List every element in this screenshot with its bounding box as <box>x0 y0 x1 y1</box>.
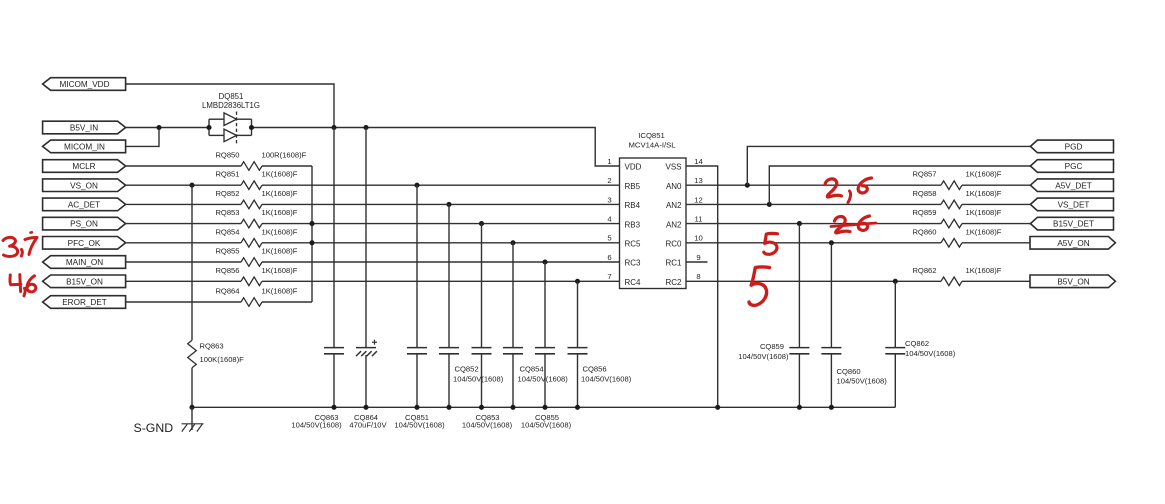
wire AN0 row pin13 <box>686 184 941 186</box>
wire B5V_IN net right segment <box>252 128 620 167</box>
junction rail CQ855 <box>542 405 547 410</box>
flag PGD <box>1030 140 1113 153</box>
wire B15V_DET to flag <box>962 223 1030 225</box>
capacitor CQ855 <box>521 262 572 430</box>
junction rail CQ863 <box>331 405 336 410</box>
resistor RQ850 <box>215 151 306 171</box>
resistor RQ857 <box>912 170 1001 190</box>
svg-text:RQ863: RQ863 <box>200 342 224 351</box>
resistor RQ852 <box>215 189 297 209</box>
svg-text:CQ852: CQ852 <box>455 365 479 374</box>
junction rail CQ853 <box>479 405 484 410</box>
svg-text:CQ859: CQ859 <box>760 342 784 351</box>
svg-text:11: 11 <box>695 215 703 224</box>
junction B5V_IN/MICOM_IN <box>156 125 161 130</box>
flag PS_ON <box>43 217 126 230</box>
svg-text:RB5: RB5 <box>625 182 641 191</box>
wire MICOM_IN riser <box>126 128 159 147</box>
svg-text:MAIN_ON: MAIN_ON <box>66 258 103 267</box>
svg-text:RQ859: RQ859 <box>912 208 936 217</box>
resistor RQ863 <box>188 185 244 407</box>
svg-text:AC_DET: AC_DET <box>68 201 100 210</box>
svg-text:RQ855: RQ855 <box>215 247 239 256</box>
svg-text:3: 3 <box>607 195 611 204</box>
junction rail at RQ863 <box>189 405 194 410</box>
junction diode cathode <box>249 125 254 130</box>
resistor RQ859 <box>912 208 1001 228</box>
svg-text:RC0: RC0 <box>665 240 682 249</box>
junction rail CQ852 <box>446 405 451 410</box>
svg-text:104/50V(1608): 104/50V(1608) <box>518 375 569 384</box>
junction pin13 PGD tap <box>745 183 750 188</box>
capacitor CQ860 <box>821 243 887 407</box>
capacitor CQ856 <box>568 281 632 407</box>
svg-text:AN0: AN0 <box>666 182 682 191</box>
junction RB5 at CQ851 <box>414 183 419 188</box>
svg-text:RB3: RB3 <box>625 220 641 229</box>
resistor RQ854 <box>215 227 297 247</box>
svg-text:PFC_OK: PFC_OK <box>68 239 101 248</box>
wire B5V_ON to flag <box>962 280 1030 282</box>
resistor RQ856 <box>215 266 297 286</box>
flag A5V_DET <box>1030 179 1113 192</box>
svg-text:A5V_ON: A5V_ON <box>1057 239 1089 248</box>
junction RC3 at CQ855 <box>542 259 547 264</box>
flag A5V_ON <box>1030 237 1115 250</box>
svg-text:S-GND: S-GND <box>134 421 174 435</box>
resistor RQ862 <box>912 266 1001 286</box>
svg-text:1K(1608)F: 1K(1608)F <box>966 189 1002 198</box>
wire A5V_ON to flag <box>962 242 1030 244</box>
svg-text:RQ850: RQ850 <box>215 151 239 160</box>
svg-text:104/50V(1608): 104/50V(1608) <box>291 421 342 430</box>
svg-text:CQ860: CQ860 <box>837 367 861 376</box>
svg-text:1K(1608)F: 1K(1608)F <box>966 208 1002 217</box>
resistor RQ858 <box>912 189 1001 209</box>
svg-text:B5V_ON: B5V_ON <box>1057 277 1089 286</box>
junction diode anode <box>206 125 211 130</box>
svg-text:MICOM_VDD: MICOM_VDD <box>59 80 109 89</box>
svg-text:RQ862: RQ862 <box>912 266 936 275</box>
svg-text:104/50V(1608): 104/50V(1608) <box>905 349 956 358</box>
annotation red 5 upper <box>764 233 778 254</box>
svg-text:470uF/10V: 470uF/10V <box>349 421 387 430</box>
svg-text:9: 9 <box>696 253 700 262</box>
svg-text:VS_ON: VS_ON <box>70 181 98 190</box>
junction rail CQ854 <box>510 405 515 410</box>
svg-text:1K(1608)F: 1K(1608)F <box>262 189 298 198</box>
svg-text:CQ854: CQ854 <box>520 365 544 374</box>
svg-text:B15V_ON: B15V_ON <box>66 277 103 286</box>
junction rail CQ851 <box>414 405 419 410</box>
junction rail VSS <box>715 405 720 410</box>
svg-text:PS_ON: PS_ON <box>70 220 98 229</box>
flag AC_DET <box>43 198 126 211</box>
svg-text:RQ856: RQ856 <box>215 266 239 275</box>
capacitor CQ859 <box>738 224 809 408</box>
svg-text:104/50V(1608): 104/50V(1608) <box>837 377 888 386</box>
svg-text:AN2: AN2 <box>666 201 682 210</box>
wire RC0 row pin10 <box>686 242 941 244</box>
svg-text:1K(1608)F: 1K(1608)F <box>262 170 298 179</box>
svg-text:RQ853: RQ853 <box>215 208 239 217</box>
flag B5V_ON <box>1030 275 1115 288</box>
svg-text:PGC: PGC <box>1065 162 1083 171</box>
capacitor CQ853 <box>462 224 513 430</box>
annotation red 2,6 crossed <box>831 216 876 233</box>
svg-text:RC5: RC5 <box>625 240 642 249</box>
capacitor CQ851 <box>394 185 445 430</box>
flag B15V_DET <box>1030 217 1113 230</box>
svg-text:MICOM_IN: MICOM_IN <box>64 143 105 152</box>
junction pin12 PGC tap <box>767 202 772 207</box>
diode DQ851 LMBD2836LT1G <box>202 92 260 146</box>
svg-text:DQ851: DQ851 <box>219 92 244 101</box>
wire RB5 row <box>262 184 620 186</box>
wire PGD <box>747 146 1030 185</box>
resistor RQ860 <box>912 227 1001 247</box>
resistor RQ864 <box>215 287 297 307</box>
svg-text:EROR_DET: EROR_DET <box>62 298 107 307</box>
resistor RQ851 <box>215 170 297 190</box>
wire PGC <box>769 166 1030 204</box>
junction RB4 at CQ852 <box>446 202 451 207</box>
svg-text:AN2: AN2 <box>666 220 682 229</box>
svg-text:RC4: RC4 <box>625 278 642 287</box>
flag PGC <box>1030 160 1113 173</box>
capacitor CQ854 <box>503 243 568 407</box>
svg-text:RQ864: RQ864 <box>215 287 239 296</box>
capacitor CQ863 <box>291 128 344 430</box>
svg-text:2: 2 <box>607 176 611 185</box>
resistor RQ855 <box>215 247 297 267</box>
pin 9 RC1 stub <box>686 261 708 263</box>
capacitor CQ852 <box>439 204 504 407</box>
wire S-GND rail <box>192 406 895 408</box>
svg-text:RQ858: RQ858 <box>912 189 936 198</box>
wire bus vertical <box>311 166 313 302</box>
wire AC_DET row <box>126 203 241 205</box>
svg-text:104/50V(1608): 104/50V(1608) <box>521 421 572 430</box>
wire RB3 row <box>262 223 620 225</box>
svg-text:RQ857: RQ857 <box>912 170 936 179</box>
resistor RQ853 <box>215 208 297 228</box>
flag PFC_OK <box>43 237 126 250</box>
svg-text:5: 5 <box>607 234 611 243</box>
ic pin numbers <box>607 157 703 281</box>
ground S-GND <box>134 407 204 435</box>
svg-text:PGD: PGD <box>1065 143 1083 152</box>
svg-text:VSS: VSS <box>665 163 681 172</box>
pin 14 VSS stub wire <box>686 166 718 407</box>
annotation red 5 lower <box>749 267 770 305</box>
svg-text:6: 6 <box>607 253 611 262</box>
junction RC4 at CQ856 <box>575 279 580 284</box>
svg-text:104/50V(1608): 104/50V(1608) <box>453 375 504 384</box>
annotation red 4,6 <box>10 275 36 296</box>
svg-text:MCLR: MCLR <box>72 162 95 171</box>
junction rail CQ856 <box>575 405 580 410</box>
junction VS_ON at RQ863 <box>189 183 194 188</box>
svg-text:ICQ851: ICQ851 <box>638 131 665 140</box>
flag MICOM_VDD <box>43 78 126 91</box>
flag VS_DET <box>1030 198 1113 211</box>
svg-text:1K(1608)F: 1K(1608)F <box>966 227 1002 236</box>
wire AN2 row pin11 <box>686 223 941 225</box>
svg-text:1: 1 <box>607 157 611 166</box>
svg-text:10: 10 <box>694 234 703 243</box>
wire RC2 row pin8 <box>686 280 941 282</box>
wire EROR_DET row <box>126 301 241 303</box>
flag B5V_IN <box>43 121 126 134</box>
wire VS_ON row <box>126 184 241 186</box>
svg-text:1K(1608)F: 1K(1608)F <box>966 266 1002 275</box>
svg-text:100R(1608)F: 100R(1608)F <box>262 151 307 160</box>
junction RB3 at CQ853 <box>479 221 484 226</box>
junction rail CQ864 <box>363 405 368 410</box>
svg-text:CQ856: CQ856 <box>583 365 607 374</box>
junction pin11 at CQ859 <box>797 221 802 226</box>
svg-text:13: 13 <box>694 176 703 185</box>
svg-text:1K(1608)F: 1K(1608)F <box>966 170 1002 179</box>
wire RC4 row <box>262 280 620 282</box>
wire B5V_IN net left segment <box>126 127 209 129</box>
flag MCLR <box>43 160 126 173</box>
svg-text:LMBD2836LT1G: LMBD2836LT1G <box>202 101 260 110</box>
wire VS_DET to flag <box>962 203 1030 205</box>
svg-text:RQ860: RQ860 <box>912 227 936 236</box>
flag VS_ON <box>43 179 126 192</box>
junction pin10 at CQ860 <box>829 240 834 245</box>
wire RC3 row <box>262 261 620 263</box>
junction rail CQ860 <box>829 405 834 410</box>
svg-text:104/50V(1608): 104/50V(1608) <box>462 421 513 430</box>
svg-text:MCV14A-I/SL: MCV14A-I/SL <box>629 140 677 149</box>
wire RC5 row <box>262 242 620 244</box>
svg-text:8: 8 <box>696 272 700 281</box>
svg-text:4: 4 <box>607 215 612 224</box>
svg-text:RB4: RB4 <box>625 201 641 210</box>
junction rail CQ859 <box>797 405 802 410</box>
svg-text:100K(1608)F: 100K(1608)F <box>200 355 245 364</box>
svg-text:RQ852: RQ852 <box>215 189 239 198</box>
svg-text:1K(1608)F: 1K(1608)F <box>262 266 298 275</box>
svg-text:104/50V(1608): 104/50V(1608) <box>394 421 445 430</box>
wire PFC_OK row <box>126 242 241 244</box>
svg-text:CQ862: CQ862 <box>905 339 929 348</box>
svg-text:12: 12 <box>694 195 703 204</box>
ic ICQ851 MCV14A-I/SL body <box>620 131 687 288</box>
flag B15V_ON <box>43 275 126 288</box>
svg-text:1K(1608)F: 1K(1608)F <box>262 208 298 217</box>
junction bus at PFC_OK row <box>309 240 314 245</box>
wire RB4 row <box>262 203 620 205</box>
annotation red 2,6 upper <box>825 178 872 203</box>
svg-text:RC3: RC3 <box>625 259 642 268</box>
capacitor CQ864 electrolytic <box>349 128 387 430</box>
capacitor CQ862 <box>885 281 955 407</box>
junction B5V net at CQ864 <box>363 125 368 130</box>
annotation red 3,7 <box>3 232 37 256</box>
wire MCLR to bus <box>262 165 312 167</box>
svg-text:7: 7 <box>607 272 611 281</box>
wire MAIN_ON row <box>126 261 241 263</box>
svg-text:1K(1608)F: 1K(1608)F <box>262 287 298 296</box>
svg-text:1K(1608)F: 1K(1608)F <box>262 227 298 236</box>
wire EROR_DET to bus <box>262 301 312 303</box>
wire B15V_ON row <box>126 280 241 282</box>
svg-text:RQ854: RQ854 <box>215 227 239 236</box>
svg-text:B15V_DET: B15V_DET <box>1053 220 1094 229</box>
flag MICOM_IN <box>43 140 126 153</box>
svg-text:RC2: RC2 <box>665 278 682 287</box>
svg-text:14: 14 <box>694 157 703 166</box>
svg-text:VDD: VDD <box>625 163 642 172</box>
svg-text:A5V_DET: A5V_DET <box>1055 181 1091 190</box>
wire A5V_DET to flag <box>962 184 1030 186</box>
svg-text:104/50V(1608): 104/50V(1608) <box>581 375 632 384</box>
wire PS_ON row <box>126 223 241 225</box>
svg-text:RC1: RC1 <box>665 259 682 268</box>
junction bus at PS_ON row <box>309 221 314 226</box>
junction B5V net at CQ863 <box>331 125 336 130</box>
svg-text:RQ851: RQ851 <box>215 170 239 179</box>
svg-text:104/50V(1608): 104/50V(1608) <box>738 352 789 361</box>
svg-text:1K(1608)F: 1K(1608)F <box>262 247 298 256</box>
wire AN2 row pin12 <box>686 203 941 205</box>
flag EROR_DET <box>43 296 126 309</box>
ic pin name labels <box>625 163 683 287</box>
svg-text:VS_DET: VS_DET <box>1058 201 1090 210</box>
wire MCLR row <box>126 165 241 167</box>
svg-text:B5V_IN: B5V_IN <box>70 124 98 133</box>
junction RC5 at CQ854 <box>510 240 515 245</box>
wire MICOM_VDD net <box>126 84 334 128</box>
junction pin8 at CQ862 <box>893 279 898 284</box>
flag MAIN_ON <box>43 256 126 269</box>
